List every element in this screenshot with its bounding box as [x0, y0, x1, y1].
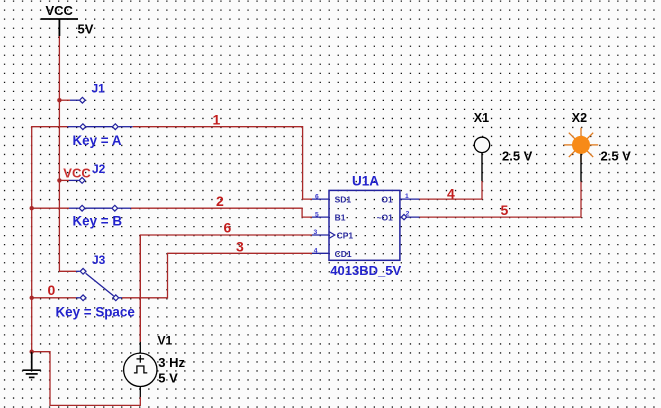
pin stub B1 (pin 5): [312, 216, 329, 218]
node junction J3 row: [30, 296, 34, 300]
J1 lever: [86, 126, 112, 128]
svg-text:1: 1: [213, 112, 221, 128]
J2 contact diamond bottom left: [79, 205, 85, 211]
svg-text:0: 0: [48, 282, 56, 298]
J3 throw terminal stub (top): [76, 270, 80, 272]
svg-text:CP1: CP1: [337, 231, 354, 241]
svg-text:SD1: SD1: [335, 195, 352, 205]
wire V1 top red: [139, 235, 141, 342]
svg-text:4013BD_5V: 4013BD_5V: [330, 263, 401, 278]
svg-text:J2: J2: [92, 162, 106, 176]
J3 lever (diagonal): [86, 273, 114, 296]
switch J2: [69, 180, 131, 208]
pin stub CD1 (pin 4): [312, 252, 329, 254]
pin negation diamond ~O1: [401, 214, 406, 219]
clock chevron CP1: [329, 232, 335, 239]
J2 contact diamond top: [79, 178, 85, 184]
svg-text:X2: X2: [572, 111, 587, 125]
clock source V1: [124, 342, 157, 397]
svg-text:VCC: VCC: [63, 166, 91, 181]
svg-text:X1: X1: [474, 111, 489, 125]
J3 contact diamond top: [80, 268, 86, 274]
pin labels U1A: [335, 195, 394, 259]
svg-text:4: 4: [314, 248, 318, 255]
svg-text:VCC: VCC: [46, 3, 74, 18]
J1 pole contact diamond: [112, 124, 118, 130]
node junction J2: [57, 178, 61, 182]
svg-text:3: 3: [314, 229, 318, 236]
J3 pole terminal stub: [119, 297, 122, 299]
pin numbers U1A: [314, 193, 410, 254]
svg-text:2: 2: [406, 211, 410, 218]
svg-text:6: 6: [315, 194, 319, 201]
pin stub CP1 (pin 3): [312, 234, 329, 236]
svg-text:Key = B: Key = B: [73, 213, 123, 228]
svg-text:3: 3: [236, 239, 244, 255]
svg-text:Key = Space: Key = Space: [56, 304, 135, 319]
pin stubs U1A: [312, 199, 420, 253]
svg-text:2: 2: [216, 193, 224, 209]
VCC power symbol: [41, 19, 78, 36]
svg-text:2.5 V: 2.5 V: [601, 149, 632, 164]
switch J1: [68, 100, 133, 127]
wire net 1: [133, 127, 312, 199]
wire J2 top stub: [59, 179, 69, 181]
svg-text:1: 1: [405, 193, 409, 200]
svg-text:3 Hz: 3 Hz: [158, 355, 185, 370]
wire left bus vertical: [32, 127, 68, 352]
flip-flop U1A 4013BD_5V body: [329, 190, 400, 260]
wire ground to V1 bottom: [32, 352, 141, 406]
svg-text:J1: J1: [92, 82, 106, 96]
wire VCC to J1/J2 vertical: [59, 36, 76, 271]
J1 contact diamond top: [80, 97, 86, 103]
wire J3 row left: [32, 297, 76, 299]
wire J2 row left: [32, 207, 69, 209]
svg-text:J3: J3: [92, 253, 106, 267]
wire J1 top stub: [59, 99, 70, 101]
pin stub SD1 (pin 6): [312, 198, 329, 200]
probe X2 (lit): [564, 128, 598, 162]
wire net 6: [140, 235, 312, 342]
pin stub O1 (pin 1): [400, 198, 420, 200]
probe X1: [481, 153, 483, 181]
node junction J2 row: [30, 206, 34, 210]
J2 pole contact diamond: [112, 205, 118, 211]
svg-text:V1: V1: [158, 333, 173, 347]
wire net 2: [131, 208, 312, 217]
J1 pole terminal stub: [119, 126, 133, 128]
svg-text:Key = A: Key = A: [73, 133, 122, 148]
svg-text:5V: 5V: [78, 22, 94, 37]
J2 throw terminal stub (bottom left): [69, 207, 79, 209]
wire net 4: [420, 181, 483, 199]
J3 throw terminal stub (bottom left): [76, 297, 80, 299]
J1 contact diamond bottom left: [80, 124, 86, 130]
J2 pole terminal stub: [118, 207, 131, 209]
node junction J1: [57, 98, 61, 102]
J1 throw terminal stub (top): [70, 99, 79, 101]
J3 contact diamond bottom left: [80, 295, 86, 301]
svg-text:4: 4: [447, 186, 455, 202]
node junction ground: [30, 350, 34, 354]
svg-text:O1: O1: [381, 195, 393, 205]
J2 throw terminal stub (top): [69, 179, 79, 181]
J2 lever: [85, 207, 111, 209]
svg-text:B1: B1: [335, 213, 346, 223]
ground: [23, 352, 41, 378]
wire net 5: [420, 182, 582, 218]
J3 pole contact diamond: [113, 295, 119, 301]
svg-text:~O1: ~O1: [377, 213, 394, 223]
svg-text:2.5 V: 2.5 V: [502, 149, 533, 164]
svg-text:U1A: U1A: [352, 174, 379, 189]
J1 throw terminal stub (bottom left): [68, 126, 80, 128]
switch J3: [76, 271, 122, 298]
svg-text:5 V: 5 V: [158, 370, 178, 385]
svg-text:6: 6: [224, 220, 232, 236]
pin stub ~O1 (pin 2): [400, 216, 420, 218]
svg-text:CD1: CD1: [335, 249, 352, 259]
svg-text:5: 5: [501, 202, 509, 218]
svg-text:5: 5: [315, 212, 319, 219]
wire net 3: [122, 253, 312, 297]
